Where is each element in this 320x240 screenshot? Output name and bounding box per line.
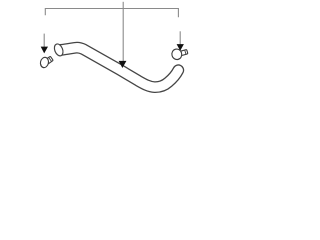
dimension bracket top horizontal line with end ticks: [45, 9, 178, 18]
right callout arrow shaft: [179, 31, 181, 44]
left clamp C1 ring: [39, 56, 49, 68]
center leader line: [122, 2, 124, 62]
hose left end opening ellipse: [53, 43, 65, 57]
left callout arrowhead: [41, 47, 48, 54]
hose inner white fill: [61, 48, 178, 87]
hose outer outline (tube drawn as thick stroke): [61, 48, 178, 87]
left clamp C1 screw housing: [45, 56, 54, 64]
left callout arrow shaft: [43, 34, 45, 47]
right clamp C2 screw housing: [181, 49, 188, 55]
center arrowhead: [119, 61, 127, 68]
right clamp C2 ring: [171, 48, 183, 61]
right callout arrowhead: [177, 44, 184, 51]
